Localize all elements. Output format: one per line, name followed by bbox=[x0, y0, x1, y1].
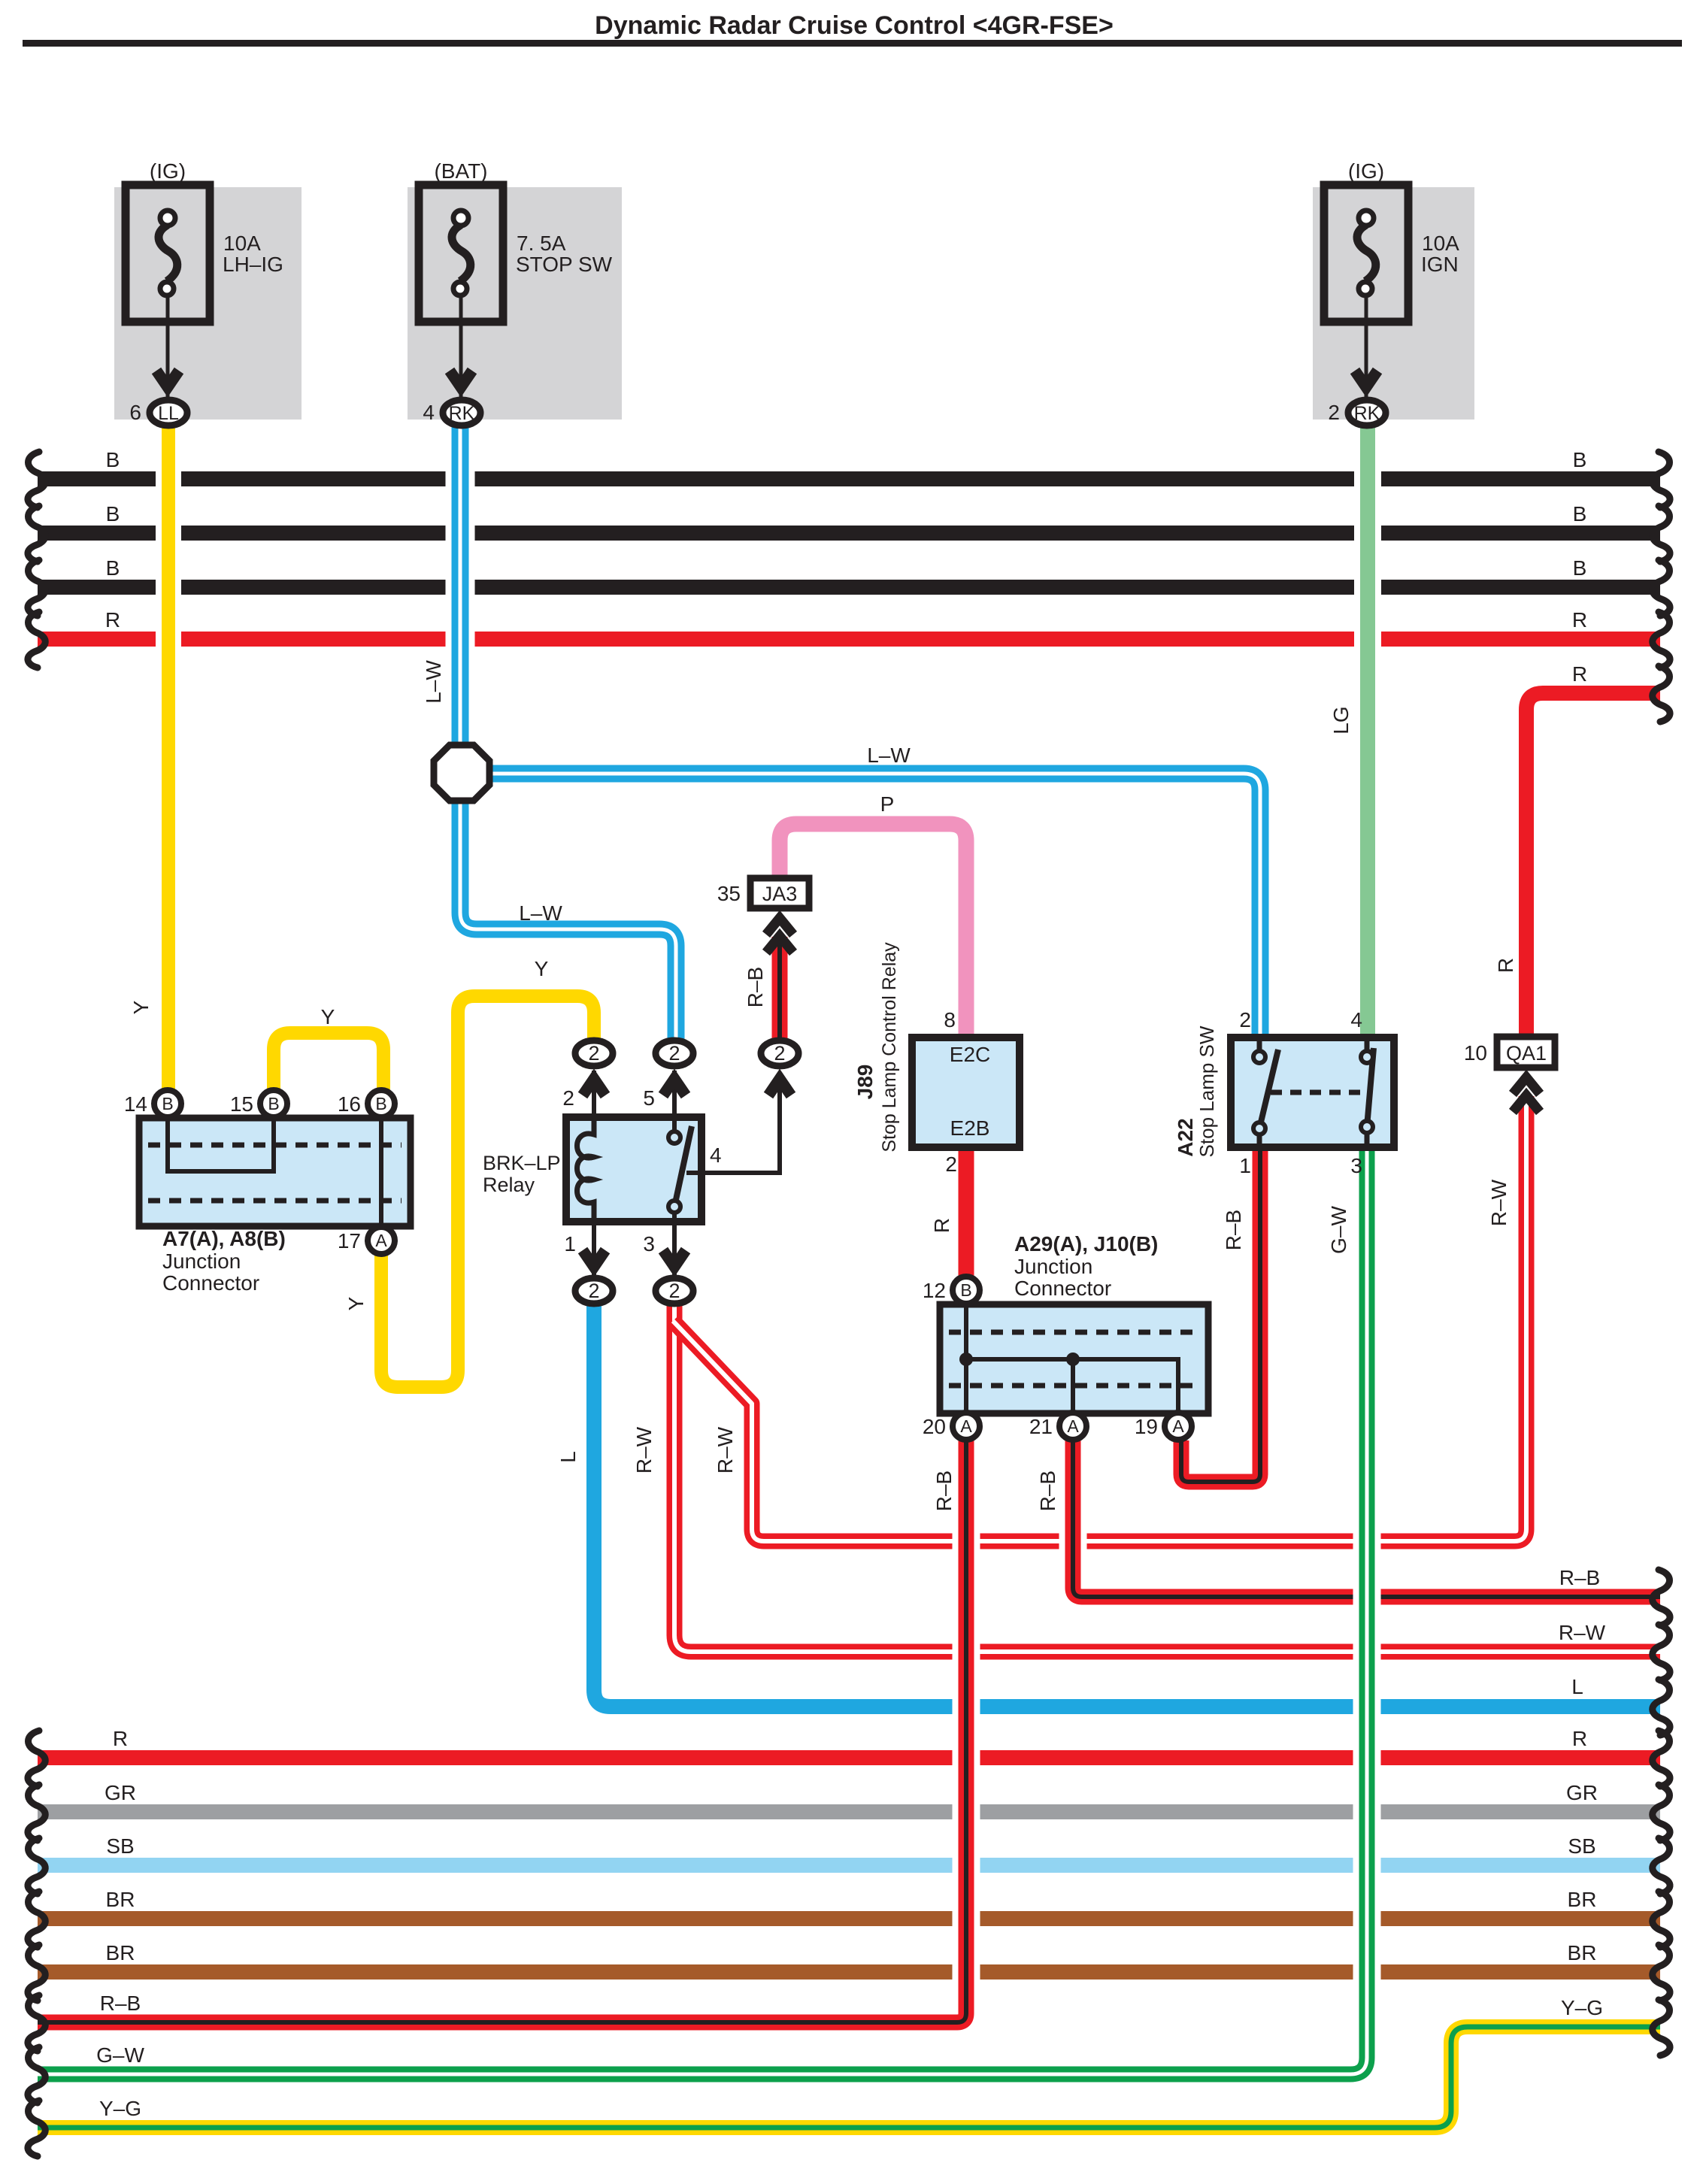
wire L-W octagon to stop lamp SW bbox=[487, 774, 1260, 1037]
svg-text:B: B bbox=[106, 556, 120, 580]
svg-text:Dynamic Radar Cruise Control <: Dynamic Radar Cruise Control <4GR-FSE> bbox=[595, 11, 1114, 40]
svg-text:20: 20 bbox=[923, 1415, 946, 1438]
wire R to QA1 bbox=[1526, 693, 1660, 1037]
svg-text:G–W: G–W bbox=[1327, 1206, 1350, 1254]
svg-text:L–W: L–W bbox=[867, 744, 911, 767]
relay BRK-LP contact bbox=[674, 1126, 692, 1207]
svg-text:Connector: Connector bbox=[1014, 1277, 1111, 1300]
switch A22 stop lamp SW box bbox=[1231, 1037, 1394, 1147]
svg-text:Stop Lamp SW: Stop Lamp SW bbox=[1195, 1025, 1218, 1157]
wire break mark right y850 bbox=[1653, 612, 1670, 668]
svg-text:R: R bbox=[1494, 958, 1517, 973]
svg-text:A: A bbox=[1067, 1416, 1079, 1436]
switch A22 right contact bbox=[1365, 1037, 1370, 1052]
svg-text:B: B bbox=[1573, 502, 1587, 526]
svg-text:R: R bbox=[930, 1218, 953, 1233]
wire break mark right y2197 bbox=[1653, 1625, 1670, 1680]
fuse 7.5A STOP SW bbox=[408, 187, 622, 420]
svg-text:2: 2 bbox=[668, 1280, 680, 1302]
svg-text:15: 15 bbox=[230, 1092, 253, 1116]
wire break mark right y2552 bbox=[1653, 1892, 1670, 1947]
junction connector A29(A),J10(B) box bbox=[940, 1304, 1208, 1413]
svg-text:35: 35 bbox=[717, 882, 741, 905]
wire G-W stop lamp SW pin3 to left bus bbox=[38, 1147, 1367, 2074]
wire bus R bottom bbox=[38, 1750, 1660, 1765]
svg-text:Relay: Relay bbox=[483, 1174, 535, 1196]
svg-text:P: P bbox=[880, 792, 895, 816]
svg-text:BRK–LP: BRK–LP bbox=[483, 1152, 561, 1174]
wire R-W bus to right bbox=[674, 1305, 1660, 1652]
svg-text:B: B bbox=[106, 502, 120, 526]
arrow double chevron QA1 upper bbox=[1513, 1077, 1540, 1094]
svg-text:2: 2 bbox=[588, 1280, 599, 1302]
svg-text:R: R bbox=[1572, 1727, 1587, 1750]
svg-text:BR: BR bbox=[1568, 1941, 1597, 1964]
svg-text:7. 5A: 7. 5A bbox=[517, 232, 566, 255]
svg-text:R–B: R–B bbox=[932, 1471, 956, 1511]
arrow into connector pin5 bbox=[663, 1079, 686, 1095]
svg-text:3: 3 bbox=[643, 1232, 655, 1256]
wire break mark right y2338 bbox=[1653, 1731, 1670, 1786]
wire break mark left y850 bbox=[28, 612, 45, 668]
wire break mark right y637 bbox=[1653, 452, 1670, 507]
svg-text:R–B: R–B bbox=[1036, 1471, 1059, 1511]
relay BRK-LP coil bbox=[577, 1121, 595, 1219]
svg-text:(IG): (IG) bbox=[1348, 159, 1384, 183]
pin 12 B bbox=[953, 1277, 980, 1304]
wire L-W octagon to BRK-LP relay bbox=[460, 798, 676, 1039]
pin 16 B bbox=[368, 1090, 395, 1117]
svg-text:(BAT): (BAT) bbox=[434, 159, 487, 183]
svg-text:2: 2 bbox=[1328, 401, 1340, 424]
wire break mark left y2481 bbox=[28, 1838, 45, 1894]
svg-text:L–W: L–W bbox=[422, 660, 445, 704]
wire break mark left y2759 bbox=[28, 2047, 45, 2103]
wire bus R top bbox=[38, 632, 1660, 647]
wire bus BR1 bbox=[38, 1911, 1660, 1926]
wire R-B stop lamp SW pin1 to junction pin19 bbox=[1181, 1147, 1260, 1482]
svg-text:R–B: R–B bbox=[1559, 1566, 1600, 1589]
svg-text:L: L bbox=[1571, 1675, 1583, 1698]
svg-text:2: 2 bbox=[945, 1153, 957, 1176]
svg-text:2: 2 bbox=[562, 1086, 574, 1110]
pin 20 A bbox=[953, 1413, 980, 1440]
svg-text:10A: 10A bbox=[223, 232, 261, 255]
wire break mark left y2410 bbox=[28, 1785, 45, 1840]
connector oval 2 below relay pin1 bbox=[575, 1278, 613, 1304]
wire R-W relay pin3 to QA1 bbox=[673, 1096, 1526, 1541]
svg-text:4: 4 bbox=[710, 1143, 722, 1167]
svg-text:4: 4 bbox=[1350, 1008, 1362, 1031]
wire bus B1 (ground) bbox=[38, 471, 1660, 486]
wire break mark left y637 bbox=[28, 452, 45, 507]
wire break mark left y709 bbox=[28, 506, 45, 562]
svg-text:Y–G: Y–G bbox=[99, 2097, 141, 2120]
svg-text:E2C: E2C bbox=[950, 1043, 990, 1066]
svg-text:Stop Lamp Control Relay: Stop Lamp Control Relay bbox=[879, 942, 900, 1153]
svg-text:B: B bbox=[1573, 448, 1587, 471]
fuse 10A LH-IG bbox=[114, 187, 302, 420]
svg-text:A: A bbox=[375, 1231, 387, 1250]
title rule bbox=[23, 40, 1682, 47]
arrow double chevron JA3 lower bbox=[766, 936, 793, 953]
svg-text:R: R bbox=[1572, 608, 1587, 632]
svg-text:A7(A), A8(B): A7(A), A8(B) bbox=[162, 1227, 286, 1250]
svg-text:B: B bbox=[268, 1094, 279, 1113]
svg-text:BR: BR bbox=[106, 1941, 135, 1964]
connector oval 2 below relay pin3 bbox=[656, 1278, 693, 1304]
svg-text:21: 21 bbox=[1029, 1415, 1053, 1438]
wire bus GR bbox=[38, 1804, 1660, 1819]
svg-text:R: R bbox=[113, 1727, 128, 1750]
svg-text:SB: SB bbox=[106, 1834, 134, 1858]
svg-text:A: A bbox=[960, 1416, 972, 1436]
svg-text:10A: 10A bbox=[1422, 232, 1459, 255]
connector oval 2 right (JA3 branch) bbox=[761, 1041, 798, 1066]
svg-text:GR: GR bbox=[1566, 1781, 1598, 1804]
wire Y fuse LH-IG to junction pin14 bbox=[156, 423, 181, 1089]
svg-text:G–W: G–W bbox=[96, 2043, 144, 2067]
wire pin4 BRK-LP relay to connector oval bbox=[686, 1074, 780, 1173]
svg-text:10: 10 bbox=[1464, 1041, 1487, 1065]
svg-text:R–B: R–B bbox=[100, 1992, 141, 2015]
wire break mark left y2830 bbox=[28, 2101, 45, 2156]
svg-text:2: 2 bbox=[1239, 1008, 1251, 1031]
svg-text:Y: Y bbox=[321, 1005, 335, 1028]
arrow into connector (pin4 path) bbox=[768, 1079, 791, 1095]
svg-text:BR: BR bbox=[106, 1888, 135, 1911]
pin 17 A bbox=[368, 1227, 395, 1254]
svg-text:LH–IG: LH–IG bbox=[223, 253, 283, 276]
svg-text:2: 2 bbox=[668, 1042, 680, 1065]
wire break mark right y2270 bbox=[1653, 1680, 1670, 1735]
svg-text:5: 5 bbox=[643, 1086, 655, 1110]
svg-text:19: 19 bbox=[1135, 1415, 1158, 1438]
svg-text:1: 1 bbox=[1239, 1154, 1251, 1177]
wire LG fuse IGN to stop lamp SW pin4 bbox=[1354, 423, 1381, 1037]
wire break mark right y781 bbox=[1653, 560, 1670, 616]
svg-text:Junction: Junction bbox=[162, 1250, 241, 1273]
arrow out connector pin1 bbox=[583, 1250, 605, 1267]
wire break mark left y781 bbox=[28, 560, 45, 616]
svg-text:B: B bbox=[162, 1094, 173, 1113]
svg-text:R–W: R–W bbox=[1487, 1179, 1511, 1226]
pin 19 A bbox=[1165, 1413, 1192, 1440]
svg-text:B: B bbox=[1573, 556, 1587, 580]
wire break mark left y2623 bbox=[28, 1945, 45, 2001]
svg-text:LG: LG bbox=[1329, 706, 1353, 734]
svg-text:R–W: R–W bbox=[1559, 1621, 1606, 1644]
arrow out connector pin3 bbox=[663, 1250, 686, 1267]
wire break mark right y709 bbox=[1653, 506, 1670, 562]
svg-text:L–W: L–W bbox=[519, 901, 562, 925]
svg-text:LL: LL bbox=[158, 403, 179, 424]
arrow into fuse connector bbox=[1355, 371, 1377, 387]
svg-text:12: 12 bbox=[923, 1279, 946, 1302]
wire break mark right y2124 bbox=[1653, 1570, 1670, 1625]
node octagon junction L-W bbox=[434, 745, 489, 801]
svg-text:E2B: E2B bbox=[950, 1116, 990, 1140]
pin 15 B bbox=[260, 1090, 287, 1117]
svg-text:R: R bbox=[1572, 662, 1587, 686]
relay BRK-LP box bbox=[566, 1117, 702, 1222]
pin 21 A bbox=[1059, 1413, 1086, 1440]
arrow into connector pin2 bbox=[583, 1079, 605, 1095]
svg-text:R–W: R–W bbox=[632, 1426, 656, 1474]
switch A22 left contact bbox=[1257, 1037, 1262, 1052]
wire P JA3 to relay J89 pin8 bbox=[780, 824, 966, 1037]
wire break mark right y2410 bbox=[1653, 1785, 1670, 1840]
wire L bus to right bbox=[594, 1305, 1660, 1707]
svg-text:16: 16 bbox=[338, 1092, 361, 1116]
svg-text:STOP SW: STOP SW bbox=[516, 253, 613, 276]
wire R-B junction pin21 to right bus bbox=[1073, 1440, 1660, 1597]
wire relay pin3 lead bbox=[672, 1212, 677, 1278]
svg-text:QA1: QA1 bbox=[1506, 1042, 1547, 1065]
wire R J89 pin2 to junction pin12 bbox=[959, 1147, 974, 1278]
wire break mark right y922 bbox=[1653, 666, 1670, 722]
svg-text:R–B: R–B bbox=[1222, 1210, 1245, 1250]
svg-text:R–B: R–B bbox=[744, 967, 767, 1007]
wire break mark left y2552 bbox=[28, 1892, 45, 1947]
junction A29 internal links bbox=[964, 1304, 968, 1413]
svg-text:IGN: IGN bbox=[1421, 253, 1459, 276]
svg-text:B: B bbox=[960, 1280, 971, 1300]
connector JA3 bbox=[750, 878, 809, 908]
svg-text:1: 1 bbox=[564, 1232, 576, 1256]
wire relay pin2 lead bbox=[592, 1071, 596, 1121]
svg-text:14: 14 bbox=[124, 1092, 147, 1116]
svg-text:Connector: Connector bbox=[162, 1271, 259, 1295]
wire Y-G bus bbox=[38, 2027, 1660, 2128]
svg-text:B: B bbox=[106, 448, 120, 471]
arrow into fuse connector bbox=[156, 371, 179, 387]
wire R-B JA3 to connector bbox=[772, 937, 788, 1039]
wire break mark right y2696 bbox=[1653, 2000, 1670, 2055]
svg-text:2: 2 bbox=[774, 1042, 785, 1065]
svg-text:JA3: JA3 bbox=[762, 883, 798, 905]
connector oval 2 above relay pin2 bbox=[575, 1041, 613, 1066]
fuse 10A IGN bbox=[1313, 187, 1474, 420]
svg-text:A29(A), J10(B): A29(A), J10(B) bbox=[1014, 1232, 1158, 1256]
svg-text:17: 17 bbox=[338, 1229, 361, 1253]
svg-text:L: L bbox=[556, 1451, 580, 1463]
svg-text:2: 2 bbox=[588, 1042, 599, 1065]
svg-text:R: R bbox=[105, 608, 120, 632]
relay J89 stop lamp control box bbox=[912, 1037, 1020, 1147]
wire bus B3 (ground) bbox=[38, 580, 1660, 595]
switch A22 dashed link bbox=[1271, 1090, 1362, 1095]
svg-text:Junction: Junction bbox=[1014, 1255, 1092, 1278]
wire Y jumper pin15 to pin16 bbox=[274, 1033, 383, 1089]
junction A7 internal link 16-17 bbox=[379, 1118, 383, 1226]
svg-text:SB: SB bbox=[1568, 1834, 1595, 1858]
pin 14 B bbox=[154, 1090, 181, 1117]
wire L-W fuse STOP SW to octagon bbox=[446, 423, 475, 749]
svg-text:BR: BR bbox=[1568, 1888, 1597, 1911]
svg-text:3: 3 bbox=[1350, 1154, 1362, 1177]
arrow into fuse connector bbox=[450, 371, 472, 387]
svg-text:RK: RK bbox=[1354, 403, 1380, 424]
wire bus B2 (ground) bbox=[38, 526, 1660, 541]
svg-text:A: A bbox=[1172, 1416, 1184, 1436]
svg-text:B: B bbox=[375, 1094, 386, 1113]
junction connector A7(A),A8(B) box bbox=[139, 1118, 411, 1226]
connector QA1 bbox=[1497, 1037, 1555, 1068]
connector oval 2 above relay pin5 bbox=[656, 1041, 693, 1066]
svg-text:Y–G: Y–G bbox=[1561, 1996, 1603, 2019]
svg-text:Y: Y bbox=[535, 957, 549, 980]
wire break mark right y2623 bbox=[1653, 1945, 1670, 2001]
svg-text:Y: Y bbox=[344, 1296, 368, 1310]
svg-text:A22: A22 bbox=[1174, 1118, 1197, 1156]
svg-text:(IG): (IG) bbox=[150, 159, 186, 183]
wire break mark left y2690 bbox=[28, 1995, 45, 2051]
wire R-B junction pin20 to left bus bbox=[38, 1440, 966, 2022]
svg-text:GR: GR bbox=[105, 1781, 136, 1804]
svg-text:4: 4 bbox=[423, 401, 435, 424]
wire relay pin5 lead bbox=[672, 1071, 677, 1125]
svg-text:R–W: R–W bbox=[714, 1426, 737, 1474]
arrow double chevron JA3 upper bbox=[766, 918, 793, 934]
svg-text:6: 6 bbox=[129, 401, 141, 424]
svg-text:8: 8 bbox=[944, 1008, 956, 1031]
arrow double chevron QA1 lower bbox=[1513, 1095, 1540, 1112]
wire relay pin1 lead bbox=[592, 1219, 596, 1278]
svg-text:Y: Y bbox=[129, 1000, 153, 1014]
wire bus BR2 bbox=[38, 1964, 1660, 1980]
wire break mark left y2338 bbox=[28, 1731, 45, 1786]
svg-text:RK: RK bbox=[449, 403, 475, 424]
wire Y junction pin17 to relay pin2 bbox=[381, 996, 594, 1387]
svg-text:J89: J89 bbox=[853, 1065, 877, 1100]
junction A7 internal link 14-15 bbox=[168, 1118, 274, 1171]
wire break mark right y2481 bbox=[1653, 1838, 1670, 1894]
wire bus SB bbox=[38, 1858, 1660, 1873]
